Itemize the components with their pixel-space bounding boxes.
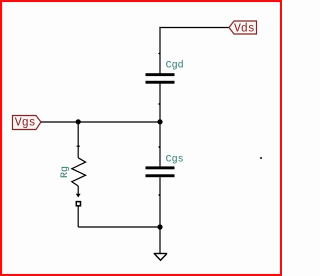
pin marker: Cgs pin 2 <box>158 194 160 197</box>
port tag Vgs <box>13 116 42 130</box>
wire: Cgs bottom plate down to ground node <box>159 177 161 227</box>
resistor Rg zigzag body <box>72 158 86 186</box>
pin marker: Rg pin 1 (cross tick) <box>77 145 80 147</box>
svg-text:Cgs: Cgs <box>166 154 184 165</box>
wire: from pad down to bottom rail <box>77 206 79 227</box>
svg-text:Vgs: Vgs <box>15 116 36 129</box>
pin marker: Rg pin 2 arrowhead <box>76 194 81 198</box>
wire: vertical from top corner to Cgd top plate <box>159 27 161 74</box>
stray mark <box>260 157 262 159</box>
junction: gate node at resistor branch <box>76 119 81 124</box>
wire: top horizontal from drain node to Vds tag <box>159 27 229 29</box>
pin marker: Cgd pin 1 <box>158 52 160 55</box>
svg-text:Cgd: Cgd <box>166 60 184 72</box>
wire: gate node down to Cgs top plate <box>159 122 161 166</box>
wire: Vgs tag to gate node (horizontal) <box>41 121 161 123</box>
wire: ground stem <box>159 227 161 254</box>
wire: bottom horizontal rail to ground column <box>78 226 160 228</box>
capacitor C_gd plates <box>146 73 175 84</box>
junction: source/ground node <box>157 224 162 229</box>
port tag Vds <box>229 21 257 35</box>
wire: gate node down to resistor top <box>77 122 79 158</box>
junction: gate node at Cgd/Cgs column <box>157 119 162 124</box>
svg-text:Rg: Rg <box>60 166 71 178</box>
pin marker: Cgd pin 2 <box>158 103 160 106</box>
ground symbol <box>154 254 168 261</box>
node marker: open square (wire end pad) <box>76 202 80 206</box>
capacitor C_gs plates <box>146 166 175 177</box>
wire: resistor bottom lead with arrow end <box>77 186 79 195</box>
pin marker: Cgs pin 1 <box>158 146 160 149</box>
svg-text:Vds: Vds <box>234 22 255 35</box>
wire: Cgd bottom plate down to gate node <box>159 84 161 123</box>
